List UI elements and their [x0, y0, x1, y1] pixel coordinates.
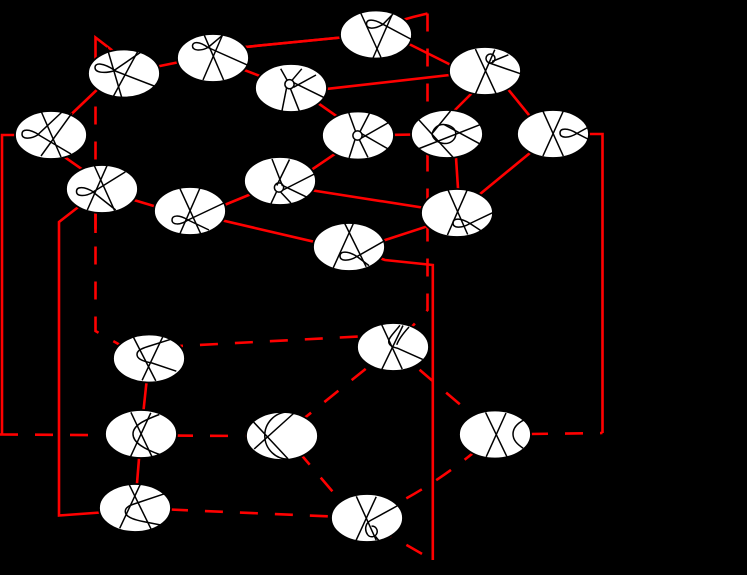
- node N: [113, 335, 185, 383]
- edge B-F: [213, 58, 291, 88]
- node H: [411, 110, 483, 158]
- wire D route to R: [59, 189, 135, 516]
- edge F-I: [320, 71, 485, 90]
- edge dashed R-S: [135, 508, 367, 518]
- node K: [244, 157, 316, 205]
- edge L-M: [376, 222, 440, 243]
- node C: [15, 111, 87, 159]
- edge dashed N-Q: [165, 336, 370, 347]
- node T: [340, 11, 413, 59]
- node A: [88, 48, 160, 99]
- edge J-M: [457, 134, 553, 213]
- edge F-G: [315, 101, 340, 119]
- edge E-L: [218, 219, 325, 244]
- edge E-K: [222, 192, 256, 206]
- node L: [313, 223, 385, 271]
- wire C left border wrap: [2, 135, 51, 435]
- node P: [246, 412, 318, 460]
- edge dashed Q-U: [393, 347, 495, 435]
- edge C-D: [58, 152, 88, 173]
- edge K-M: [310, 190, 457, 213]
- wire J route right side: [553, 134, 603, 433]
- wire A peak bend: [96, 38, 125, 76]
- node D: [66, 165, 138, 213]
- edge B-T: [240, 38, 341, 48]
- edge dashed Q-P: [282, 347, 393, 436]
- edge dashed S to bottom corner: [376, 528, 433, 561]
- node M: [421, 189, 495, 237]
- node E: [154, 187, 226, 235]
- edge dashed left wrap horizontal through O P: [0, 435, 282, 437]
- edge N-O: [141, 359, 149, 435]
- node F: [255, 64, 327, 114]
- edge H-M: [456, 150, 459, 196]
- edge O-R: [135, 434, 141, 508]
- node U: [459, 411, 531, 459]
- edge dashed corner to Q vertical: [393, 14, 428, 348]
- edge G-H: [358, 134, 447, 136]
- edge dashed U to right corner: [495, 433, 603, 435]
- node J: [517, 110, 589, 158]
- node R: [99, 484, 171, 532]
- edge dashed S-U: [375, 435, 495, 515]
- wire D stub down: [94, 212, 97, 233]
- edge D-E: [128, 198, 158, 207]
- edge A-C: [60, 84, 103, 125]
- node G: [322, 112, 394, 160]
- node S: [331, 494, 403, 542]
- edge I-H: [448, 87, 478, 117]
- edge G-K: [308, 151, 340, 173]
- node O: [105, 410, 177, 458]
- node I: [449, 47, 522, 95]
- edge T-I: [405, 42, 456, 68]
- wire L route down: [349, 247, 433, 560]
- edge A-B: [155, 62, 182, 68]
- edge dashed A-D-N vertical: [96, 90, 136, 354]
- wire B to top corner: [240, 14, 428, 48]
- edge I-J: [505, 86, 533, 121]
- node Q: [357, 323, 429, 371]
- node B: [177, 34, 249, 82]
- edge dashed P-S: [298, 451, 350, 512]
